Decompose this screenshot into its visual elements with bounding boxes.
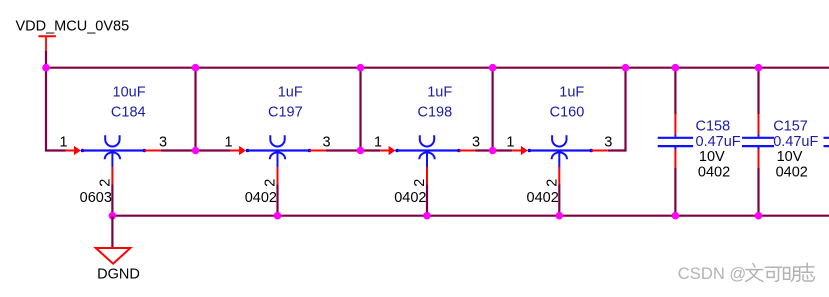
svg-text:3: 3 <box>604 135 612 151</box>
svg-text:1: 1 <box>225 135 233 151</box>
C158 pin 2 lead <box>674 150 676 168</box>
capacitor C157 (0.47uF 10V 0402) <box>742 68 818 216</box>
junction bottom bus x758 <box>755 212 763 220</box>
svg-text:3: 3 <box>322 135 330 151</box>
C160 pin 1 arrow <box>521 146 528 155</box>
svg-text:C184: C184 <box>111 105 146 121</box>
C184 pin 3 dot <box>143 149 147 153</box>
power bar stem <box>45 36 47 51</box>
svg-text:0603: 0603 <box>80 190 112 206</box>
C158 plate stub top <box>674 134 676 136</box>
wire top bus VDD rail <box>46 67 829 69</box>
power port VDD_MCU_0V85 <box>16 19 130 51</box>
junction top bus x625 <box>622 64 630 72</box>
partial cap plate 2 <box>824 145 829 147</box>
C157 plate stub top <box>758 134 760 136</box>
C197 pin 3 lead <box>310 150 327 152</box>
capacitor C184 (10uF 0603 feedthrough) <box>59 84 167 206</box>
watermark CSDN text <box>678 264 746 283</box>
C157 plate 2 <box>742 145 774 147</box>
C198 pin 3 lead <box>459 150 476 152</box>
C197 pin 1 lead <box>231 150 240 152</box>
svg-text:1: 1 <box>59 135 67 151</box>
C198 pin 2 lead <box>426 167 428 185</box>
svg-text:1uF: 1uF <box>278 84 303 100</box>
capacitor C158 (0.47uF 10V 0402) <box>658 68 741 216</box>
C160 pin 3 lead <box>591 150 608 152</box>
C197 pin 1 dot <box>246 149 250 153</box>
C160 pin 1 lead <box>512 150 521 152</box>
C158 plate stub bottom <box>674 147 676 150</box>
ground DGND <box>96 248 140 282</box>
C198 stem <box>426 151 428 167</box>
junction pin row x492 <box>489 147 497 155</box>
svg-text:CSDN @: CSDN @ <box>678 264 746 283</box>
svg-text:0.47uF: 0.47uF <box>696 134 741 150</box>
junction top bus x196 <box>192 64 200 72</box>
junction top bus x46 <box>42 64 50 72</box>
wire vertical drop at x360 <box>359 68 361 151</box>
power bar symbol <box>38 35 56 37</box>
C157 plate stub bottom <box>758 147 760 150</box>
capacitor C160 (1uF 0402 feedthrough) <box>506 84 612 206</box>
partial cap plate 1 <box>824 137 829 139</box>
svg-text:0402: 0402 <box>698 164 730 180</box>
C184 top arc <box>105 135 119 146</box>
wire vertical drop at x492 <box>492 68 494 151</box>
svg-text:10uF: 10uF <box>113 84 146 100</box>
C160 pin 3 dot <box>590 149 594 153</box>
C198 top arc <box>420 135 434 146</box>
C184 bottom arc <box>105 152 120 159</box>
svg-text:0402: 0402 <box>527 190 559 206</box>
svg-text:3: 3 <box>159 135 167 151</box>
junction top bus x360 <box>357 64 365 72</box>
ground triangle <box>96 248 131 264</box>
wire power to top bus <box>45 51 47 68</box>
C160 bottom arc <box>552 152 567 159</box>
svg-text:C198: C198 <box>418 105 453 121</box>
capacitor C198 (1uF 0402 feedthrough) <box>374 84 480 206</box>
wire pin row C184 to C197 <box>161 149 231 151</box>
junction top bus x758 <box>755 64 763 72</box>
C197 pin 1 arrow <box>239 146 246 155</box>
svg-text:2: 2 <box>545 179 561 187</box>
C157 pin 1 lead <box>758 114 760 134</box>
C184 pin 1 arrow <box>74 146 81 155</box>
C197 top arc <box>270 135 284 146</box>
C160 stem <box>558 151 560 167</box>
C184 stem <box>111 151 113 167</box>
C157 plate 1 <box>742 137 774 139</box>
capacitor C197 (1uF 0402 feedthrough) <box>225 84 331 206</box>
C160 pin 2 lead <box>558 167 560 185</box>
C198 pin 1 lead <box>380 150 389 152</box>
svg-text:2: 2 <box>263 179 279 187</box>
C198 pin 1 dot <box>395 149 399 153</box>
C197 stem <box>277 151 279 167</box>
C158 pin 1 lead <box>674 114 676 134</box>
svg-text:0.47uF: 0.47uF <box>773 134 818 150</box>
junction pin row x196 <box>192 147 200 155</box>
C197 pin 3 dot <box>308 149 312 153</box>
junction bottom bus x427 <box>423 212 431 220</box>
junction bottom bus x675 <box>672 212 680 220</box>
svg-text:3: 3 <box>472 135 480 151</box>
svg-text:10V: 10V <box>777 149 803 165</box>
C184 pin 2 lead <box>111 167 113 185</box>
wire C160 pin3 corner up at x625 <box>608 68 626 151</box>
C158 plate 1 <box>658 137 693 139</box>
wire pin row C198 to C160 <box>476 149 513 151</box>
C184 feedthrough line <box>83 149 145 151</box>
svg-text:2: 2 <box>98 179 114 187</box>
svg-text:0402: 0402 <box>776 164 808 180</box>
junction bottom bus x559 <box>556 212 564 220</box>
junction top bus x492 <box>489 64 497 72</box>
C198 feedthrough line <box>397 149 459 151</box>
watermark CJK characters <box>746 263 814 281</box>
junction pin row x360 <box>357 147 365 155</box>
C160 pin 1 dot <box>528 149 532 153</box>
C198 bottom arc <box>419 152 434 159</box>
svg-text:C197: C197 <box>268 105 303 121</box>
C158 plate 2 <box>658 145 693 147</box>
C197 bottom arc <box>270 152 285 159</box>
wire C197 pin2 to bottom bus <box>276 185 278 216</box>
wire bottom bus ground rail <box>112 215 829 217</box>
junction bottom bus x277 <box>274 212 282 220</box>
svg-text:1: 1 <box>374 135 382 151</box>
C198 pin 1 arrow <box>389 146 396 155</box>
C160 top arc <box>552 135 566 146</box>
wire bottom bus to ground <box>111 216 113 248</box>
junction top bus x675 <box>672 64 680 72</box>
C184 pin 1 lead <box>66 150 75 152</box>
wire C157 bottom <box>757 168 759 216</box>
C157 pin 2 lead <box>758 150 760 168</box>
wire C198 pin2 to bottom bus <box>426 185 428 216</box>
wire left vertical to C184 pin1 <box>46 68 66 151</box>
svg-text:1: 1 <box>506 135 514 151</box>
junction bottom bus x112 <box>109 212 117 220</box>
wire vertical drop at x196 <box>194 68 196 151</box>
C198 pin 3 dot <box>457 149 461 153</box>
wire C160 pin2 to bottom bus <box>558 185 560 216</box>
C160 feedthrough line <box>529 149 591 151</box>
svg-text:DGND: DGND <box>97 266 140 282</box>
wire C157 top <box>757 68 759 114</box>
svg-text:VDD_MCU_0V85: VDD_MCU_0V85 <box>16 19 130 35</box>
C197 feedthrough line <box>248 149 310 151</box>
svg-text:1uF: 1uF <box>559 84 584 100</box>
svg-text:C158: C158 <box>696 119 731 135</box>
wire C158 bottom <box>674 168 676 216</box>
svg-text:C160: C160 <box>550 105 585 121</box>
svg-text:10V: 10V <box>699 149 725 165</box>
svg-text:0402: 0402 <box>245 190 277 206</box>
C184 pin 3 lead <box>144 150 161 152</box>
C197 pin 2 lead <box>277 167 279 185</box>
wire pin row C197 to C198 <box>326 149 380 151</box>
wire C184 pin2 to bottom bus <box>111 185 113 216</box>
C184 pin 1 dot <box>81 149 85 153</box>
svg-text:1uF: 1uF <box>427 84 452 100</box>
wire C158 top <box>674 68 676 114</box>
capacitor partial at right edge <box>824 138 829 146</box>
svg-text:2: 2 <box>412 179 428 187</box>
svg-text:C157: C157 <box>773 119 808 135</box>
svg-text:0402: 0402 <box>394 190 426 206</box>
